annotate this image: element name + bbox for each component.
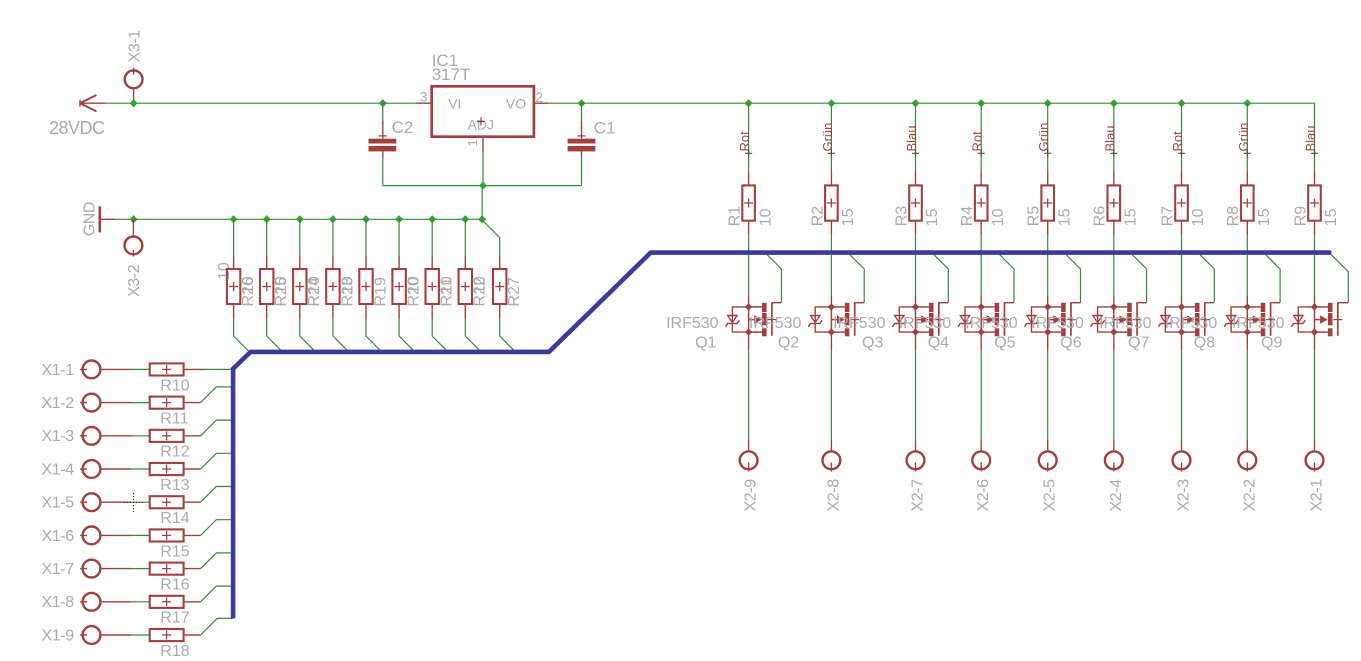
svg-text:2: 2 (535, 89, 543, 105)
junction C1 node (578, 99, 586, 107)
junction R25 on GND rail (263, 215, 271, 223)
junction Q7 drain (1178, 303, 1185, 310)
svg-text:Q6: Q6 (1060, 335, 1081, 352)
svg-text:15: 15 (1323, 208, 1340, 226)
wire X1-6 to R15 (131, 534, 150, 536)
wire GND rail (134, 218, 483, 220)
svg-text:R12: R12 (160, 444, 189, 461)
wire R27 top lead (482, 219, 500, 256)
resistor R4 (980, 172, 982, 186)
svg-text:Q4: Q4 (928, 335, 949, 352)
svg-text:X3-1: X3-1 (126, 30, 143, 63)
svg-text:15: 15 (924, 208, 941, 226)
junction Q3 drain (912, 303, 919, 310)
wire Q5 source to X2-5 (1047, 332, 1049, 350)
resistor R6 (1113, 172, 1115, 186)
wire R14 to bus (184, 501, 201, 503)
wire X1-1 to R10 (131, 368, 150, 370)
wire R17 to bus (184, 601, 201, 603)
wire GND to X3-2 junction (115, 218, 134, 220)
supply arrow 28VDC (80, 95, 97, 103)
svg-text:Grün: Grün (1036, 123, 1051, 152)
svg-text:X2-2: X2-2 (1241, 479, 1258, 512)
wire bus to Q7 gate (1200, 255, 1214, 303)
svg-text:R9: R9 (1292, 206, 1309, 227)
svg-text:R7: R7 (1159, 206, 1176, 227)
junction R20 on GND rail (395, 215, 403, 223)
junction R2 on rail (827, 99, 835, 107)
svg-text:Q9: Q9 (1261, 335, 1282, 352)
junction R4 on rail (977, 99, 985, 107)
pin 1 ADJ of IC1 (482, 137, 484, 152)
pin wire X1-4 (100, 468, 131, 470)
pin wire X1-2 (100, 402, 131, 404)
wire R3 to Q3 drain (915, 221, 917, 235)
wire R19 bottom lead to bus (365, 304, 367, 319)
connector X2-8 (823, 451, 841, 469)
svg-text:10: 10 (1190, 208, 1207, 226)
junction ADJ node (479, 182, 487, 190)
svg-text:15: 15 (1256, 208, 1273, 226)
pin wire X1-8 (100, 601, 131, 603)
resistor R11 (150, 397, 184, 409)
connector X1-4 (80, 468, 87, 470)
wire R6 to Q6 drain (1113, 221, 1115, 235)
junction Q5 drain (1044, 303, 1051, 310)
svg-text:15: 15 (1123, 208, 1140, 226)
wire R4 to Q4 drain (980, 221, 982, 235)
svg-text:IRF530: IRF530 (749, 315, 802, 332)
svg-text:R27: R27 (506, 277, 523, 306)
capacitor C1 (581, 103, 583, 121)
wire R2 to Q2 drain (830, 221, 832, 235)
junction R24 on GND rail (296, 215, 304, 223)
wire R12 to bus (184, 435, 201, 437)
junction Q9 source (1311, 328, 1318, 335)
transistor Q1 IRF530 (749, 307, 762, 332)
resistor R22 (459, 269, 472, 304)
junction R7 on rail (1178, 99, 1186, 107)
svg-text:Rot: Rot (1170, 131, 1185, 152)
svg-text:X2-8: X2-8 (825, 479, 842, 512)
wire R23 top lead (332, 219, 334, 256)
wire R26 bottom lead to bus (233, 304, 235, 319)
svg-text:10: 10 (306, 276, 323, 294)
wire Q4 source to X2-6 (980, 332, 982, 350)
svg-text:Grün: Grün (820, 123, 835, 152)
resistor R13 (150, 463, 184, 475)
svg-text:10: 10 (472, 276, 489, 294)
wire Q2 source to X2-8 (830, 332, 832, 350)
wire rail to IC1 VI (383, 102, 416, 104)
svg-text:X2-5: X2-5 (1042, 479, 1059, 512)
resistor R24 (293, 269, 306, 304)
svg-text:VO: VO (506, 96, 526, 112)
connector X2-6 (972, 451, 990, 469)
wire Q8 source to X2-2 (1246, 332, 1248, 350)
svg-text:Rot: Rot (737, 131, 752, 152)
transistor Q3 IRF530 (916, 307, 929, 332)
wire rail to R5 (1047, 103, 1049, 171)
transistor Q5 IRF530 (1048, 307, 1061, 332)
svg-text:15: 15 (840, 208, 857, 226)
wire bus to Q3 gate (934, 255, 948, 303)
svg-text:C1: C1 (594, 119, 616, 138)
pin wire X1-6 (100, 534, 131, 536)
wire rail to R3 (915, 103, 917, 171)
wire X1-8 to R17 (131, 601, 150, 603)
wire R7 to Q7 drain (1181, 221, 1183, 235)
wire R13 to bus (184, 468, 201, 470)
resistor R9 (1314, 172, 1316, 186)
connector X2-3 (1173, 451, 1191, 469)
pin wire X1-1 (100, 368, 131, 370)
svg-text:X1-1: X1-1 (42, 362, 75, 379)
svg-text:10: 10 (339, 276, 356, 294)
junction Q7 source (1178, 328, 1185, 335)
svg-text:R3: R3 (893, 206, 910, 227)
wire IC1 VO to C1 node (549, 102, 582, 104)
junction Q8 source (1244, 328, 1251, 335)
junction R21 on GND rail (428, 215, 436, 223)
transistor Q6 IRF530 (1114, 307, 1127, 332)
pin wire X1-3 (100, 435, 131, 437)
junction Q3 source (912, 328, 919, 335)
connector X1-5 (80, 501, 87, 503)
svg-text:X2-7: X2-7 (910, 479, 927, 512)
svg-text:Rot: Rot (970, 131, 985, 152)
transistor Q9 IRF530 (1315, 307, 1328, 332)
resistor R27 (493, 269, 506, 304)
pin 2 of IC1 (534, 102, 549, 104)
resistor R16 (150, 563, 184, 575)
wire R20 bottom lead to bus (398, 304, 400, 319)
resistor R14 (150, 496, 184, 508)
junction R19 on GND rail (362, 215, 370, 223)
connector X1-8 (80, 601, 87, 603)
wire X1-5 to R14 (131, 501, 150, 503)
svg-text:IRF530: IRF530 (1165, 315, 1218, 332)
svg-text:10: 10 (240, 276, 257, 294)
svg-text:R19: R19 (372, 277, 389, 306)
junction R27 on GND rail (478, 215, 486, 223)
svg-text:VI: VI (448, 96, 461, 112)
wire R8 to Q8 drain (1246, 221, 1248, 235)
wire R25 bottom lead to bus (266, 304, 268, 319)
svg-text:Blau: Blau (1102, 125, 1117, 151)
junction R8 on rail (1243, 99, 1251, 107)
wire bus to Q4 gate (1000, 255, 1014, 303)
wire Q6 source to X2-4 (1113, 332, 1115, 350)
connector X2-4 (1105, 451, 1123, 469)
junction X3-2 on GND rail (130, 215, 138, 223)
svg-text:Q3: Q3 (862, 335, 883, 352)
svg-text:10: 10 (406, 276, 423, 294)
resistor R15 (150, 529, 184, 541)
junction Q4 source (978, 328, 985, 335)
svg-text:X2-3: X2-3 (1176, 479, 1193, 512)
wire R25 top lead (266, 219, 268, 256)
wire X1-4 to R13 (131, 468, 150, 470)
wire X1-9 to R18 (131, 634, 150, 636)
connector X2-2 (1238, 451, 1256, 469)
junction Q9 drain (1311, 303, 1318, 310)
wire R26 top lead (233, 219, 235, 256)
svg-text:R17: R17 (160, 610, 189, 627)
resistor R21 (426, 269, 439, 304)
wire R19 top lead (365, 219, 367, 256)
wire Q3 source to X2-7 (915, 332, 917, 350)
pin wire X1-5 (100, 501, 131, 503)
resistor R10 (150, 363, 184, 375)
wire R9 to Q9 drain (1314, 221, 1316, 235)
pin wire X1-9 (100, 634, 131, 636)
wire bus to Q1 gate (767, 255, 781, 303)
svg-text:X1-8: X1-8 (42, 594, 75, 611)
IC1 origin cross (477, 121, 485, 123)
svg-text:R18: R18 (160, 643, 189, 660)
svg-text:X1-3: X1-3 (42, 428, 75, 445)
junction Q6 drain (1110, 303, 1117, 310)
wire bus to Q2 gate (850, 255, 864, 303)
svg-text:IRF530: IRF530 (965, 315, 1018, 332)
connector X2-9 (740, 451, 758, 469)
junction Q8 drain (1244, 303, 1251, 310)
bus gate signals (233, 253, 1331, 619)
svg-text:X2-1: X2-1 (1309, 479, 1326, 512)
connector X1-1 (80, 368, 87, 370)
connector X3-2 (132, 219, 134, 236)
wire R5 to Q5 drain (1047, 221, 1049, 235)
wire R21 top lead (431, 219, 433, 256)
pin wire X1-7 (100, 568, 131, 570)
wire R21 bottom lead to bus (431, 304, 433, 319)
svg-text:Grün: Grün (1236, 123, 1251, 152)
junction C2 node (379, 99, 387, 107)
wire bus to Q6 gate (1132, 255, 1146, 303)
op-amp regulator IC1 body (432, 86, 534, 136)
junction Q2 source (828, 328, 835, 335)
wire X1-3 to R12 (131, 435, 150, 437)
svg-text:X1-7: X1-7 (42, 561, 75, 578)
connector X1-7 (80, 568, 87, 570)
svg-text:IRF530: IRF530 (899, 315, 952, 332)
resistor R8 (1246, 172, 1248, 186)
svg-text:IRF530: IRF530 (1031, 315, 1084, 332)
svg-text:X1-9: X1-9 (42, 627, 75, 644)
wire bus to Q9 gate (1331, 255, 1348, 303)
svg-text:X2-9: X2-9 (743, 479, 760, 512)
wire Q7 source to X2-3 (1181, 332, 1183, 350)
resistor R2 (830, 172, 832, 186)
connector X1-2 (80, 402, 87, 404)
svg-text:R4: R4 (959, 206, 976, 227)
ground symbol (99, 206, 102, 232)
wire R20 top lead (398, 219, 400, 256)
svg-text:Q8: Q8 (1194, 335, 1215, 352)
svg-text:X1-4: X1-4 (42, 461, 75, 478)
svg-text:X1-5: X1-5 (42, 495, 75, 512)
wire R27 bottom lead to bus (499, 304, 501, 319)
svg-text:R1: R1 (727, 206, 744, 227)
svg-text:Blau: Blau (1303, 125, 1318, 151)
connector X3-1 (133, 68, 135, 75)
svg-text:317T: 317T (432, 65, 471, 84)
resistor R23 (326, 269, 339, 304)
svg-text:R6: R6 (1092, 206, 1109, 227)
svg-text:R2: R2 (809, 206, 826, 227)
junction X3-1 on rail (130, 99, 138, 107)
junction R6 on rail (1110, 99, 1118, 107)
junction Q2 drain (828, 303, 835, 310)
wire rail to R2 (830, 103, 832, 171)
wire Q9 source to X2-1 (1314, 332, 1316, 350)
wire R11 to bus (184, 402, 201, 404)
junction Q1 drain (745, 303, 752, 310)
resistor R17 (150, 596, 184, 608)
wire R1 to Q1 drain (748, 221, 750, 235)
svg-text:X1-6: X1-6 (42, 528, 75, 545)
wire 28VDC rail left (106, 102, 383, 104)
connector X2-5 (1039, 451, 1057, 469)
resistor R3 (915, 172, 917, 186)
svg-text:10: 10 (757, 208, 774, 226)
wire rail to R6 (1113, 103, 1115, 171)
junction R22 on GND rail (461, 215, 469, 223)
wire R15 to bus (184, 534, 201, 536)
wire X1-7 to R16 (131, 568, 150, 570)
svg-text:R10: R10 (160, 377, 189, 394)
svg-text:IRF530: IRF530 (1099, 315, 1152, 332)
cursor crosshair (124, 493, 143, 512)
svg-text:IRF530: IRF530 (666, 315, 719, 332)
wire R24 bottom lead to bus (299, 304, 301, 319)
resistor R19 (359, 269, 372, 304)
svg-text:GND: GND (81, 202, 98, 236)
junction R1 on rail (745, 99, 753, 107)
svg-text:IRF530: IRF530 (1232, 315, 1285, 332)
svg-text:15: 15 (1056, 208, 1073, 226)
svg-text:C2: C2 (392, 118, 414, 137)
wire ADJ down (482, 152, 484, 186)
svg-text:3: 3 (420, 89, 428, 105)
wire R24 top lead (299, 219, 301, 256)
svg-text:R15: R15 (160, 543, 189, 560)
wire R23 bottom lead to bus (332, 304, 334, 319)
wire bus to Q8 gate (1266, 255, 1280, 303)
wire R22 bottom lead to bus (464, 304, 466, 319)
wire R16 to bus (184, 568, 201, 570)
transistor Q2 IRF530 (831, 307, 844, 332)
svg-text:R13: R13 (160, 477, 189, 494)
wire bus to Q5 gate (1066, 255, 1080, 303)
svg-text:Q1: Q1 (695, 335, 716, 352)
resistor R18 (150, 629, 184, 641)
svg-text:X2-6: X2-6 (975, 479, 992, 512)
resistor R1 (748, 172, 750, 186)
wire rail to R7 (1181, 103, 1183, 171)
wire rail to R4 (980, 103, 982, 171)
svg-text:10: 10 (990, 208, 1007, 226)
svg-text:Q7: Q7 (1128, 335, 1149, 352)
connector X1-9 (80, 634, 87, 636)
capacitor C2 (382, 103, 384, 121)
svg-text:Q2: Q2 (778, 335, 799, 352)
resistor R5 (1047, 172, 1049, 186)
wire 28VDC rail right (582, 102, 1315, 104)
transistor Q8 IRF530 (1247, 307, 1260, 332)
svg-text:R8: R8 (1225, 206, 1242, 227)
svg-text:R16: R16 (160, 577, 189, 594)
svg-text:IRF530: IRF530 (833, 315, 886, 332)
wire rail to R1 (748, 103, 750, 171)
svg-text:Q5: Q5 (994, 335, 1015, 352)
resistor R12 (150, 430, 184, 442)
svg-text:10: 10 (216, 262, 233, 280)
svg-text:R11: R11 (160, 411, 188, 428)
svg-text:10: 10 (273, 276, 290, 294)
connector X1-3 (80, 435, 87, 437)
resistor R20 (392, 269, 405, 304)
wire R22 top lead (464, 219, 466, 256)
svg-text:28VDC: 28VDC (49, 118, 105, 138)
resistor R26 (227, 269, 240, 304)
connector X1-6 (80, 534, 87, 536)
resistor R7 (1181, 172, 1183, 186)
transistor Q7 IRF530 (1182, 307, 1195, 332)
junction Q5 source (1044, 328, 1051, 335)
svg-text:1: 1 (465, 139, 480, 146)
junction R3 on rail (912, 99, 920, 107)
wire R18 to bus (184, 634, 201, 636)
junction Q6 source (1110, 328, 1117, 335)
connector X2-7 (907, 451, 925, 469)
wire Q1 source to X2-9 (748, 332, 750, 350)
junction R5 on rail (1044, 99, 1052, 107)
wire rail to R9 (1314, 103, 1316, 171)
junction R23 on GND rail (329, 215, 337, 223)
junction Q4 drain (978, 303, 985, 310)
wire X1-2 to R11 (131, 402, 150, 404)
svg-text:10: 10 (439, 276, 456, 294)
connector X2-1 (1306, 451, 1324, 469)
wire R10 to bus (184, 368, 205, 370)
wire ADJ node to GND rail (481, 186, 483, 220)
junction Q1 source (745, 328, 752, 335)
pin 3 of IC1 (415, 102, 431, 104)
wire rail to R8 (1246, 103, 1248, 171)
resistor R25 (260, 269, 273, 304)
svg-text:Blau: Blau (904, 125, 919, 151)
svg-text:X2-4: X2-4 (1108, 479, 1125, 512)
svg-text:R5: R5 (1026, 206, 1043, 227)
transistor Q4 IRF530 (981, 307, 994, 332)
svg-text:X1-2: X1-2 (42, 395, 75, 412)
svg-text:R14: R14 (160, 510, 189, 527)
junction R26 on GND rail (230, 215, 238, 223)
svg-text:X3-2: X3-2 (126, 264, 143, 297)
wire C2 to C1 bottom node (383, 185, 582, 187)
